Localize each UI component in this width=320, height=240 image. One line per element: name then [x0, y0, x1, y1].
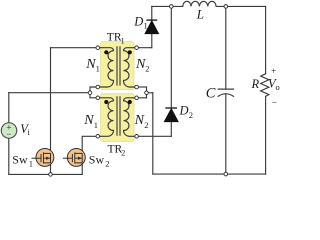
wire node B down to TR2 primary top — [90, 93, 98, 98]
wire secondary return drop — [152, 93, 154, 174]
transformer TR1 body — [101, 42, 134, 90]
svg-text:2: 2 — [121, 148, 125, 157]
svg-text:Sw: Sw — [12, 153, 28, 167]
node top rail C junction — [224, 5, 228, 9]
terminal TR1 primary bottom — [96, 85, 100, 89]
svg-text:L: L — [196, 7, 204, 22]
wire secondary bottom rail — [153, 173, 266, 175]
transformer TR2 core — [117, 96, 120, 135]
wire D2 cathode lead — [170, 6, 172, 108]
wire right rail below resistor — [265, 96, 267, 174]
svg-text:Sw: Sw — [89, 153, 105, 167]
voltage source Vi — [1, 123, 17, 139]
switch Sw1 MOSFET — [32, 148, 54, 166]
wire Sw1 drain long line — [50, 48, 52, 153]
node B primary center — [88, 91, 92, 95]
node top rail D2 junction — [170, 5, 174, 9]
wire D1 anode lead — [151, 34, 153, 48]
svg-text:1: 1 — [29, 159, 33, 169]
diode D2 — [164, 108, 178, 122]
terminal TR2 primary top — [96, 96, 100, 100]
wire Sw2 source — [81, 163, 83, 175]
svg-text:−: − — [272, 99, 277, 109]
transformer TR2 polarity dot secondary — [128, 100, 132, 104]
wire TR1 primary top row — [51, 47, 98, 49]
svg-text:D: D — [133, 14, 143, 28]
svg-text:+: + — [271, 67, 276, 77]
transformer TR2 body — [101, 94, 134, 142]
wire capacitor C bottom lead — [225, 94, 227, 174]
svg-text:−: − — [6, 129, 11, 139]
svg-text:i: i — [28, 127, 31, 137]
terminal TR2 secondary bottom — [135, 135, 139, 139]
transformer TR1 polarity dot primary — [104, 50, 108, 54]
wire secondary center-tap vertical — [146, 87, 148, 98]
wire Sw1 source — [50, 163, 52, 175]
svg-text:R: R — [251, 77, 260, 91]
switch Sw2 MOSFET — [63, 148, 85, 166]
wire TR2 secondary top row — [137, 97, 147, 99]
wire TR1 secondary top row — [137, 47, 152, 49]
transformer TR1 primary winding N1 — [100, 48, 114, 87]
wire node J2 to drop line — [147, 92, 153, 94]
wire TR1 secondary bottom row — [137, 86, 147, 88]
inductor L — [183, 1, 216, 6]
node bottom rail C junction — [224, 172, 228, 176]
svg-text:C: C — [206, 86, 216, 102]
resistor R zigzag — [261, 74, 269, 97]
terminal TR1 secondary top — [135, 46, 139, 50]
wire TR2 secondary bottom row to D2 anode — [137, 135, 172, 137]
svg-text:o: o — [276, 82, 280, 92]
svg-text:1: 1 — [96, 64, 100, 74]
transformer TR1 core — [117, 46, 120, 85]
svg-text:TR: TR — [107, 32, 122, 44]
terminal TR1 primary top — [96, 46, 100, 50]
wire capacitor C top lead — [225, 6, 227, 89]
node bottom rail Sw1 source — [49, 173, 53, 177]
transformer TR2 polarity dot primary — [104, 100, 108, 104]
svg-text:TR: TR — [108, 143, 123, 155]
svg-text:2: 2 — [189, 110, 193, 120]
transformer TR1 polarity dot secondary — [128, 50, 132, 54]
wire Vi minus lead down — [8, 138, 10, 174]
node J2 secondary center — [145, 91, 149, 95]
svg-text:2: 2 — [105, 159, 109, 169]
wire Vi plus horizontal to node B — [9, 92, 90, 94]
wire Vi plus lead up — [8, 93, 10, 123]
wire node B up to TR1 primary bottom — [90, 87, 98, 93]
svg-text:2: 2 — [145, 64, 149, 74]
svg-text:2: 2 — [144, 120, 148, 130]
wire D1 cathode lead — [151, 6, 153, 20]
svg-text:N: N — [134, 113, 145, 128]
wire right rail above resistor — [265, 6, 267, 73]
wire top rail left of inductor — [152, 5, 183, 7]
svg-text:1: 1 — [121, 37, 125, 46]
wire D2 anode lead — [170, 122, 172, 137]
transformer TR1 secondary winding N2 — [123, 48, 136, 87]
capacitor C plates — [218, 89, 234, 97]
terminal TR2 secondary top — [135, 96, 139, 100]
wire primary bottom rail — [9, 173, 82, 175]
svg-text:D: D — [179, 104, 189, 118]
terminal TR1 secondary bottom — [135, 85, 139, 89]
transformer TR2 primary winding N1 — [100, 98, 114, 137]
diode D1 — [145, 20, 158, 33]
transformer TR2 secondary winding N2 — [124, 98, 137, 137]
wire top rail right of inductor — [216, 5, 266, 7]
svg-text:N: N — [83, 113, 94, 128]
wire TR2 primary bottom row to Sw2 drain — [82, 136, 98, 153]
svg-text:1: 1 — [94, 120, 98, 130]
terminal TR2 primary bottom — [96, 135, 100, 139]
svg-text:1: 1 — [144, 21, 148, 31]
